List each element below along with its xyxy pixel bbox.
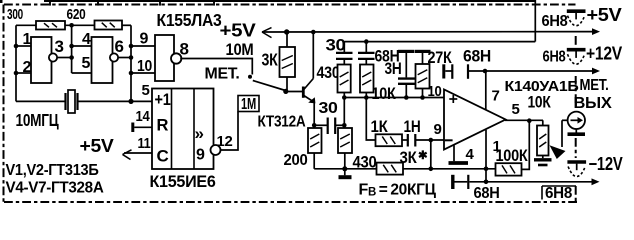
cut-off top rail wire [44, 0, 536, 2]
capacitor 30 from line B [343, 42, 345, 52]
feedthrough capacitor 6N8 +5V [567, 9, 586, 13]
node bus2 pin4 [69, 44, 74, 49]
wire op-amp pin10 line [344, 97, 444, 99]
wire 430 lower to ground line [344, 153, 346, 175]
node pin1/100K line [484, 167, 489, 172]
svg-text:V1,V2-ГТ313Б: V1,V2-ГТ313Б [6, 162, 99, 179]
wire gate1 output [57, 57, 72, 59]
wire counter output to 1M contact [220, 112, 238, 151]
svg-text:R: R [157, 117, 169, 135]
node 10K/pin10 [364, 95, 369, 100]
logic gate DD1.3 [155, 35, 174, 81]
svg-text:МЕТ.: МЕТ. [580, 77, 609, 94]
node line B 68N [364, 39, 369, 44]
svg-text:8: 8 [180, 40, 189, 59]
wire gate feedback bus2 [71, 25, 73, 73]
svg-text:10К: 10К [372, 84, 397, 103]
node bus3 crystal/counter [128, 99, 133, 104]
resistor R2 620 [95, 21, 123, 30]
wire wiper to output connector [562, 119, 568, 121]
switch SA1 contact dot [248, 75, 252, 79]
feedthrough capacitor 6N8 +12V [567, 48, 586, 52]
capacitor 1N [402, 139, 408, 141]
svg-text:9: 9 [196, 147, 205, 164]
svg-text:10М: 10М [226, 40, 254, 59]
node bus3 gate2 output [129, 55, 134, 60]
switch position label 1M box [238, 96, 259, 112]
connector ground bar [575, 129, 577, 133]
svg-text:1М: 1М [241, 96, 256, 113]
node output/100K [527, 118, 532, 123]
node 430/pin10 [342, 95, 347, 100]
svg-text:+5V: +5V [587, 5, 622, 25]
wire pin4 [72, 45, 92, 47]
svg-text:12: 12 [217, 133, 233, 150]
node feedback/100K line [429, 167, 434, 172]
wire emitter down [313, 102, 315, 128]
crystal ZQ1 10MHz [16, 100, 66, 102]
node bus3 pin10 [129, 71, 134, 76]
svg-text:ВЫХ: ВЫХ [574, 95, 613, 112]
svg-text:68Н: 68Н [474, 185, 500, 202]
node ground line [342, 166, 347, 171]
svg-text:+5V: +5V [220, 21, 256, 41]
svg-text:»: » [195, 124, 204, 143]
counter IC DD2 K155IE6 box [152, 89, 214, 170]
pin 4 wire and ground [453, 145, 455, 161]
wire 300-620 top row [16, 24, 36, 26]
resistor R1 300 [36, 21, 65, 30]
svg-text:5: 5 [142, 82, 150, 99]
counter output inverter circle pin 12 [211, 145, 221, 155]
pin 1 wire [485, 130, 487, 182]
potentiometer 10K [542, 120, 544, 125]
resistor 27K branch with terminal bar [415, 50, 431, 53]
node bus2 gate1 output [69, 55, 74, 60]
svg-text:V4-V7-ГТ328А: V4-V7-ГТ328А [6, 180, 104, 197]
svg-text:10: 10 [428, 83, 442, 100]
wire +12V rail [485, 70, 593, 72]
node bus1 pin2 [14, 71, 19, 76]
node bus3 pin9 [129, 44, 134, 49]
label 6N8 bottom with box [542, 185, 576, 187]
scan corner artifact [0, 0, 3, 3]
potentiometer ground [542, 156, 544, 159]
svg-text:30: 30 [326, 36, 346, 55]
svg-text:9: 9 [434, 121, 442, 138]
svg-text:10МГЦ: 10МГЦ [16, 110, 59, 130]
wire stubs crossing top border [49, 0, 51, 6]
resistor 10K [360, 65, 374, 93]
inverter circle DD1.1 [49, 53, 57, 61]
resistor 430 upper [338, 65, 351, 93]
node feedback/pin9 [429, 138, 434, 143]
svg-text:5: 5 [512, 101, 520, 118]
inverter circle DD1.3 [171, 53, 181, 63]
resistor 100K feedback [431, 168, 496, 170]
svg-text:100К: 100К [496, 146, 529, 165]
capacitor 68N on +12V rail with terminal bar [442, 64, 445, 78]
svg-text:К155ИЕ6: К155ИЕ6 [150, 172, 216, 191]
resistor 3K* horizontal [377, 163, 404, 175]
svg-text:3: 3 [55, 37, 64, 56]
svg-text:11: 11 [138, 135, 151, 152]
wire feedback vertical [430, 140, 432, 169]
node collector +5V [311, 30, 316, 35]
wire switch common to base [286, 91, 303, 93]
svg-text:200: 200 [284, 152, 308, 169]
wire down to emitter cap node [343, 98, 345, 129]
svg-text:7: 7 [492, 88, 500, 105]
wire pin9 [131, 45, 155, 47]
wire ground-feedback line [314, 168, 376, 170]
wire pin2 [16, 72, 31, 74]
capacitor 68N from line B [365, 42, 367, 52]
wire pin10 [131, 72, 155, 74]
pin 7 wire [485, 71, 487, 110]
wire 3K* to feedback node [403, 168, 431, 170]
svg-text:6Н8: 6Н8 [543, 49, 566, 66]
capacitor 3N branch with terminal bar [398, 50, 414, 53]
feedthrough capacitor 6N8 -12V [567, 160, 586, 164]
wire gate3 output to switch [180, 59, 252, 75]
pin 11 wire with +5V arrow [124, 152, 152, 154]
svg-text:1Н: 1Н [404, 117, 421, 136]
node filter input [342, 123, 347, 128]
svg-text:30: 30 [319, 100, 338, 117]
wire -12V rail [470, 181, 593, 183]
svg-text:14: 14 [136, 108, 151, 125]
svg-text:6Н8: 6Н8 [545, 185, 572, 202]
node 3N/pin10 [404, 95, 409, 100]
node +12V/pin7 [483, 69, 488, 74]
enclosure shield border, bottom edge [4, 201, 578, 203]
logic gate DD1.1 [31, 37, 52, 83]
resistor 430 lower [338, 128, 352, 153]
svg-text:C: C [157, 147, 169, 166]
arrowhead +5V entry right [592, 28, 600, 35]
svg-text:430: 430 [317, 63, 340, 82]
wire 3K bottom to switch common [286, 77, 288, 91]
svg-text:1К: 1К [371, 117, 389, 136]
ground symbol under 430 [339, 175, 352, 179]
op-amp + input mark [449, 98, 457, 100]
wire gate output bus3 [130, 25, 132, 101]
wire 1N to op-amp pin 9 [415, 139, 444, 141]
connector XW1 output socket [568, 112, 585, 129]
enclosure shield border, left edge [3, 5, 5, 203]
svg-text:+1: +1 [155, 90, 171, 109]
node junction resistor row / gate bus [69, 23, 74, 28]
svg-text:5: 5 [82, 55, 91, 72]
svg-text:К155ЛА3: К155ЛА3 [157, 10, 223, 30]
svg-text:КТ312А: КТ312А [258, 114, 307, 131]
enclosure shield border (dash-dot), top edge [4, 4, 576, 6]
wire pin5 [72, 72, 92, 74]
switch SA1 lever [253, 81, 286, 91]
svg-text:10К: 10К [528, 93, 552, 112]
pin 14 terminal bar and wire [131, 123, 134, 133]
inverter circle DD1.2 [110, 53, 118, 61]
wire op-amp output [505, 119, 543, 121]
node pin1/-12V rail [484, 180, 489, 185]
capacitor 30 emitter coupling [314, 124, 328, 126]
svg-text:+12V: +12V [586, 44, 622, 64]
node 3K +5V [284, 29, 289, 34]
svg-text:МЕТ.: МЕТ. [205, 66, 240, 83]
wire 3K top to +5V line [286, 32, 288, 47]
svg-text:✱: ✱ [418, 150, 428, 162]
svg-text:+5V: +5V [80, 136, 114, 156]
wire 200 bottom corner [313, 153, 315, 169]
logic gate DD1.2 [92, 37, 113, 83]
wire pin1 [16, 45, 31, 47]
node switch common [283, 89, 288, 94]
wire 10K to pin10 line [365, 93, 367, 98]
svg-text:27К: 27К [428, 48, 453, 67]
wire line B lower horizontal bus [344, 41, 535, 43]
op-amp U1 K140UD1B triangle [444, 90, 506, 150]
wire left input bus [15, 25, 17, 101]
svg-text:3Н: 3Н [385, 59, 402, 78]
svg-text:6Н8: 6Н8 [542, 13, 568, 30]
svg-text:4: 4 [466, 146, 475, 163]
node bus1 pin1 [14, 44, 19, 49]
svg-text:6: 6 [115, 37, 124, 56]
svg-text:620: 620 [67, 6, 86, 23]
svg-text:300: 300 [7, 6, 23, 23]
wire gate2 output [118, 57, 131, 59]
wire 430 to pin10 line [343, 93, 345, 98]
op-amp - input mark [445, 139, 453, 141]
wire vertical to cut-off top at x=535 [534, 0, 536, 42]
node 27K/pin10 [420, 95, 425, 100]
svg-text:9: 9 [140, 31, 149, 48]
resistor 3K [280, 47, 296, 77]
capacitor 68N on -12V rail [451, 175, 454, 189]
node emitter junction [312, 123, 317, 128]
svg-text:3К: 3К [262, 50, 278, 70]
resistor 200 [308, 128, 322, 153]
node +5V bus wire (line A) with supply arrow to label +5V left [262, 31, 593, 33]
wire down to 1K [366, 98, 375, 141]
resistor 1K [376, 134, 403, 146]
enclosure shield border, right edge segments [575, 36, 577, 46]
transistor VT1 KT312A [302, 87, 305, 98]
svg-text:−12V: −12V [589, 154, 623, 174]
potentiometer wiper arrow [561, 120, 563, 147]
svg-text:68Н: 68Н [463, 47, 491, 66]
